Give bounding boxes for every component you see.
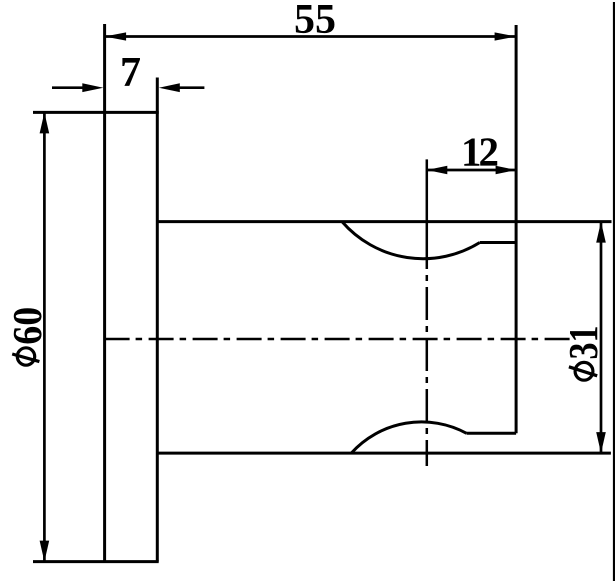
extension line / flange left edge (x=104.6) bbox=[103, 24, 106, 562]
groove vertical centerline (dash-dot) bbox=[426, 236, 429, 466]
flange top edge with phi60 extension (y=112.4) bbox=[33, 111, 159, 114]
svg-text:60: 60 bbox=[4, 307, 50, 345]
svg-text:7: 7 bbox=[120, 50, 141, 96]
dimension line 12 bbox=[427, 169, 516, 172]
extension line / flange right edge (x=157.3) bbox=[156, 78, 159, 562]
arrowhead 12 left bbox=[427, 166, 448, 174]
bottom groove arc bbox=[351, 422, 466, 453]
phi symbol of phi31 bbox=[575, 362, 593, 380]
arrowhead phi31 top bbox=[596, 222, 606, 243]
arrowhead phi60 top bbox=[40, 112, 50, 133]
part right edge / extension line (x=515.8) bbox=[515, 25, 518, 433]
top groove arc bbox=[342, 222, 480, 259]
dimension line 55 bbox=[105, 35, 516, 38]
arrowhead 12 right bbox=[496, 166, 516, 174]
phi symbol of phi60 bbox=[17, 348, 34, 365]
dimension 7 right arrow bbox=[176, 86, 204, 89]
body top edge with phi31 extension (y=221.6) bbox=[157, 220, 611, 223]
dimension line phi60 bbox=[43, 112, 46, 561]
horizontal centerline (dash-dot) bbox=[105, 338, 571, 341]
svg-text:12: 12 bbox=[461, 128, 498, 174]
bottom internal step line (y=433.6) bbox=[467, 432, 517, 435]
body bottom edge with phi31 extension (y=453.1) bbox=[157, 452, 611, 455]
flange bottom edge with phi60 extension (y=561.6) bbox=[33, 560, 159, 563]
svg-text:55: 55 bbox=[294, 0, 336, 43]
drawing frame border (right edge) bbox=[613, 2, 615, 581]
arrowhead 55 right bbox=[495, 32, 516, 40]
dimension line phi31 bbox=[600, 222, 603, 454]
arrowhead 55 left bbox=[105, 32, 127, 40]
dimension 7 left arrow bbox=[52, 86, 86, 89]
svg-text:31: 31 bbox=[560, 326, 606, 360]
groove vertical centerline solid upper part (12-dim extension) bbox=[426, 159, 429, 236]
arrowhead phi31 bottom bbox=[596, 432, 606, 453]
arrowhead phi60 bottom bbox=[40, 541, 50, 562]
top internal step line (y=240) bbox=[480, 241, 516, 244]
